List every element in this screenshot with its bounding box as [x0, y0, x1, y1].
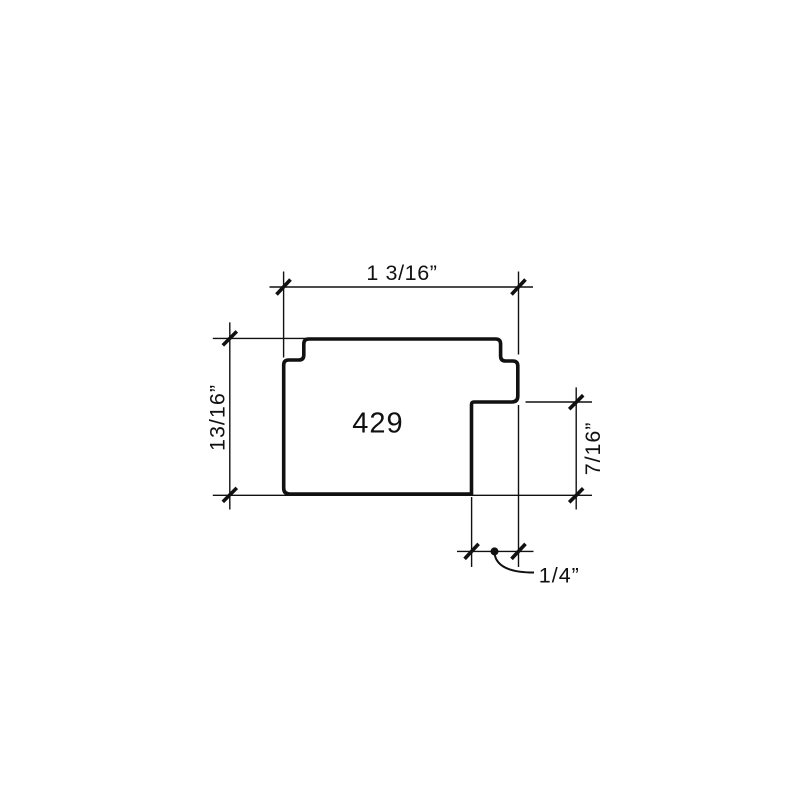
rabbet depth tick top [569, 395, 583, 409]
height dimension tick top [223, 331, 237, 345]
rabbet depth tick bottom [569, 488, 583, 502]
height dimension tick bottom [223, 488, 237, 502]
width dimension tick left [277, 280, 291, 295]
rabbet width extension line left [471, 497, 473, 567]
rabbet width tick left [465, 544, 479, 559]
rabbet depth dimension line [575, 387, 577, 509]
moulding profile outline 429 [284, 339, 518, 494]
rabbet depth extension line top [526, 401, 593, 403]
width dimension extension line left [283, 272, 285, 358]
height dimension shared bottom extension line [213, 494, 592, 496]
rabbet width leader dot [491, 547, 499, 555]
rabbet width leader curve [495, 553, 535, 573]
svg-text:1 3/16”: 1 3/16” [366, 261, 437, 285]
svg-text:429: 429 [352, 408, 403, 440]
height dimension extension line top [213, 337, 310, 339]
rabbet width tick right [512, 544, 526, 559]
rabbet width dimension line [457, 550, 534, 552]
svg-text:1/4”: 1/4” [539, 563, 580, 587]
rabbet width extension line right [518, 405, 520, 567]
svg-text:13/16”: 13/16” [206, 384, 230, 451]
width dimension extension line right [518, 272, 520, 355]
width dimension line [270, 286, 534, 288]
svg-text:7/16”: 7/16” [581, 422, 605, 476]
height dimension line [229, 322, 231, 509]
width dimension tick right [512, 280, 526, 295]
